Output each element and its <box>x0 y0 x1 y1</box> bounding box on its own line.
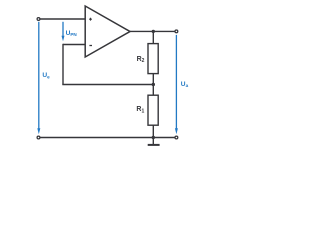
voltage arrow UPN head <box>62 36 65 41</box>
wire: R1 bottom to bottom rail <box>152 125 154 138</box>
junction: output node <box>152 30 155 33</box>
voltage arrow Ue head <box>37 128 40 134</box>
terminal: output bottom-right <box>175 136 178 139</box>
wire: bottom rail <box>39 137 177 139</box>
wire: middle node to R1 top <box>152 85 154 96</box>
junction: node between R2 and R1 <box>152 83 155 86</box>
voltage arrow Ua line <box>175 35 177 129</box>
svg-text:Ue: Ue <box>42 72 50 79</box>
wire: output node down to R2 top <box>152 31 154 44</box>
voltage arrow UPN line <box>62 22 64 37</box>
op-amp U1 triangle <box>85 6 130 57</box>
voltage arrow Ue line <box>38 22 40 129</box>
wire: feedback horizontal to node between R2 and R1 <box>62 84 153 86</box>
svg-text:R2: R2 <box>137 56 145 64</box>
resistor R1 body <box>148 95 158 125</box>
wire: top-left terminal to op-amp non-inverting input <box>39 18 86 20</box>
wire: inverting input to feedback corner <box>63 44 85 46</box>
wire: feedback vertical segment <box>62 44 64 85</box>
terminal: output top-right <box>175 30 178 33</box>
terminal: input top-left <box>37 18 40 21</box>
svg-text:Ua: Ua <box>181 81 189 88</box>
terminal: input bottom-left <box>37 136 40 139</box>
wire: R2 bottom to middle node <box>152 74 154 86</box>
junction: ground node on bottom rail <box>152 136 155 139</box>
op-amp minus input marking <box>89 45 92 47</box>
ground symbol stub <box>152 138 154 145</box>
voltage arrow Ua head <box>175 128 178 134</box>
svg-text:UPN: UPN <box>66 30 78 37</box>
wire: op-amp output to top-right terminal <box>130 30 177 32</box>
resistor R2 body <box>148 44 158 74</box>
ground symbol bar <box>148 144 160 146</box>
svg-text:R1: R1 <box>136 106 144 114</box>
op-amp plus input marking <box>89 18 92 21</box>
